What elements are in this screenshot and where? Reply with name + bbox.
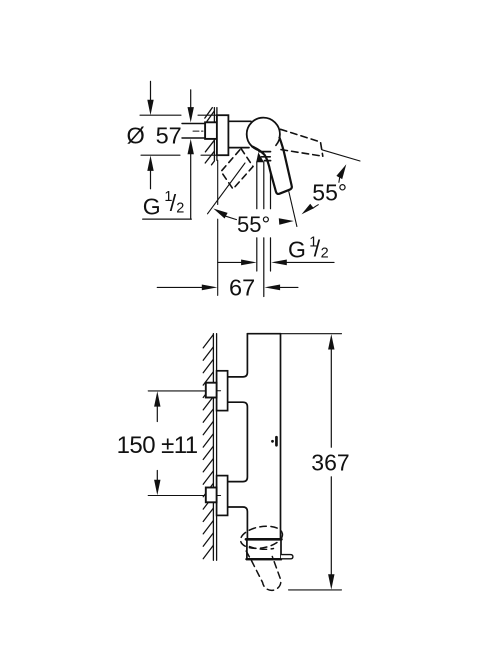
temperature marker on body edge bbox=[275, 436, 278, 447]
lever dashed right position bbox=[281, 129, 323, 156]
hand shower dashed face line bbox=[250, 547, 274, 550]
arrowhead Ø57 down bbox=[147, 100, 153, 115]
svg-text:2: 2 bbox=[321, 246, 329, 262]
367 bottom extension line bbox=[289, 589, 342, 591]
union nut upper (bottom view) bbox=[206, 383, 217, 398]
dimension G1/2 right leader right part bbox=[271, 260, 287, 266]
arc arrow left-55 right end bbox=[279, 218, 294, 224]
hand shower dashed head bbox=[239, 523, 284, 551]
lever axis line centre bbox=[289, 192, 297, 227]
body right edge bbox=[280, 334, 282, 540]
dimension line 150 lower arrow bbox=[156, 471, 158, 484]
reference line left position bbox=[208, 163, 246, 214]
escutcheon top view bbox=[217, 115, 229, 155]
wall face extension line down bbox=[217, 160, 219, 295]
lever pivot hidden marks bbox=[256, 152, 264, 162]
body left profile with bosses bbox=[228, 334, 248, 539]
stub line below nut bbox=[201, 154, 217, 156]
arrowhead G1/2 left down bbox=[188, 107, 194, 122]
dimension 67 right arrow bbox=[265, 285, 281, 291]
dimension line Ø57 upper segment bbox=[150, 81, 152, 101]
dimension line 150 upper arrow bbox=[154, 391, 160, 406]
svg-text:67: 67 bbox=[229, 274, 255, 300]
wall face stubs bbox=[216, 108, 218, 161]
pipe centre line bbox=[193, 130, 214, 132]
extension line Ø57 top bbox=[140, 114, 217, 116]
hidden outlet pipe verticals bbox=[257, 162, 271, 297]
union nut lower (bottom view) bbox=[206, 488, 217, 503]
dimension line G1/2 left upper segment bbox=[190, 90, 192, 109]
arc arrow right-55 upper end bbox=[336, 164, 346, 179]
svg-text:367: 367 bbox=[311, 449, 349, 475]
ball body circle bbox=[247, 118, 280, 151]
svg-text:G: G bbox=[143, 193, 161, 219]
neck lines to body bbox=[228, 121, 251, 147]
centre tick lower bbox=[217, 495, 220, 497]
arc arrow right-55 lower end bbox=[302, 204, 314, 215]
ball outline fragment right of lever bbox=[276, 140, 279, 146]
lever dashed left position bbox=[221, 149, 253, 190]
dimension 67 left arrow bbox=[157, 286, 204, 288]
dimension line Ø57 lower segment bbox=[150, 170, 152, 189]
arc arrow left-55 left end bbox=[213, 209, 227, 219]
leader underline G1/2 left bbox=[143, 218, 192, 220]
wall hatching bottom view bbox=[203, 335, 213, 559]
lever handle solid bbox=[252, 138, 292, 194]
svg-text:150 ±11: 150 ±11 bbox=[117, 432, 198, 459]
spout block bbox=[247, 539, 281, 560]
wall double line bottom view bbox=[213, 334, 216, 561]
body top edge and 367 top extension bbox=[247, 333, 280, 335]
hand shower dashed handle bbox=[246, 551, 281, 590]
centre tick upper bbox=[217, 390, 220, 392]
union nut top view bbox=[205, 122, 217, 139]
supply pipe bbox=[182, 124, 205, 139]
wall hatching top view bbox=[205, 108, 215, 165]
escutcheon lower (bottom view) bbox=[217, 476, 228, 516]
wall line top view bbox=[213, 108, 215, 161]
dimension G1/2 right leader left part bbox=[218, 261, 245, 263]
svg-text:G: G bbox=[288, 237, 306, 263]
extension line Ø57 bottom bbox=[141, 154, 180, 156]
dimension line 367 upper segment bbox=[328, 334, 334, 349]
svg-text:55°: 55° bbox=[312, 180, 347, 206]
dimension line 367 lower segment bbox=[330, 477, 332, 578]
svg-text:57: 57 bbox=[156, 122, 182, 148]
svg-text:55°: 55° bbox=[237, 212, 270, 237]
arrowhead G1/2 left up bbox=[188, 139, 194, 154]
dimension line G1/2 left lower segment bbox=[190, 153, 192, 219]
svg-text:2: 2 bbox=[176, 200, 184, 216]
reference line right position bbox=[322, 150, 360, 161]
spout hook lip bbox=[281, 555, 293, 559]
dimension 150 +-11 extension lines bbox=[148, 391, 206, 496]
svg-text:Ø: Ø bbox=[127, 122, 145, 148]
escutcheon upper (bottom view) bbox=[217, 371, 228, 411]
arrowhead Ø57 up bbox=[147, 156, 153, 171]
